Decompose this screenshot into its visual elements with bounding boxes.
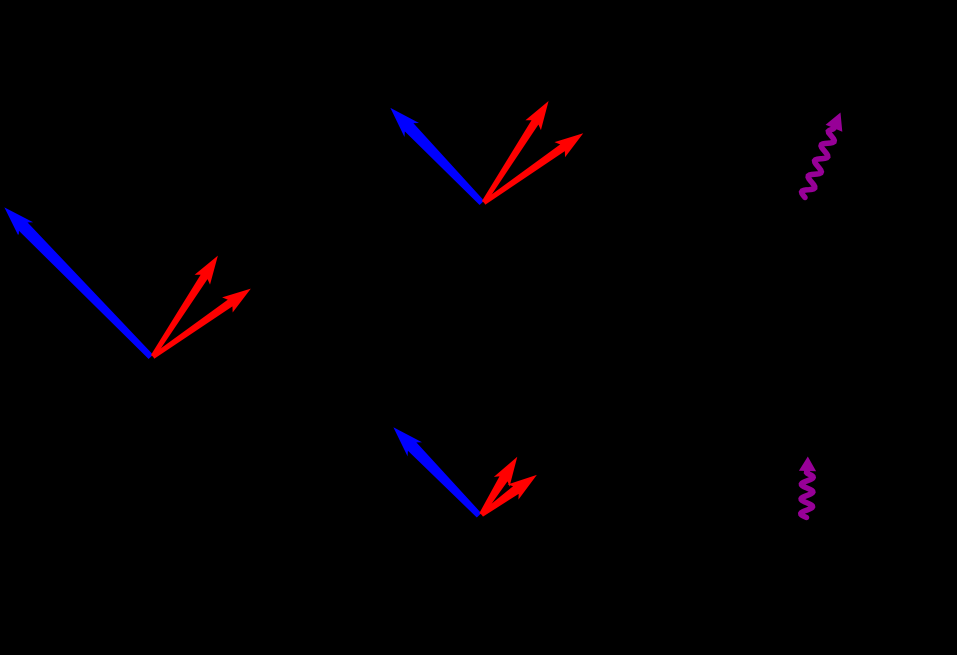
- blue incident photon arrow, middle-top group: [392, 109, 484, 204]
- red scattered photon arrow 1, middle-top group: [483, 102, 548, 203]
- blue incident photon arrow, left group: [6, 209, 153, 359]
- red scattered photon arrow 2, left group: [153, 290, 250, 359]
- red scattered photon arrow 2, middle-top group: [484, 134, 582, 204]
- red scattered photon arrow 1, left group: [152, 257, 218, 357]
- red scattered photon arrow 1, middle-bottom group: [480, 458, 516, 515]
- purple wavy vibration arrow, lower right: [799, 457, 816, 518]
- purple wavy vibration arrow, upper right: [802, 113, 843, 198]
- red scattered photon arrow 2, middle-bottom group: [481, 476, 536, 516]
- blue incident photon arrow, middle-bottom group: [395, 428, 481, 516]
